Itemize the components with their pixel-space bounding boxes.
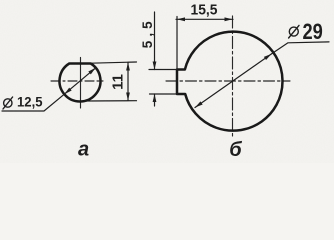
arrowhead lower-left (194, 101, 203, 109)
dimension line 5,5 lower segment (154, 94, 156, 106)
arrowhead up (126, 63, 130, 71)
extension line: tab bottom edge extended left (150, 93, 178, 95)
dimension line 5,5 upper segment (154, 12, 156, 70)
text diameter 29 (289, 25, 299, 38)
extension line top (flat continues right) (91, 62, 137, 63)
outline: circle with key tab on left (177, 32, 283, 131)
arrowhead right (225, 17, 233, 21)
diameter dimension line (diagonal) (195, 54, 272, 108)
arrowhead down (126, 93, 130, 101)
arrowhead up at tab bottom (153, 94, 157, 102)
extension line bottom (85, 100, 137, 102)
arrowhead down at tab top (153, 62, 157, 70)
outline: circle with flat top (59, 64, 100, 102)
arrowhead lower-left (63, 88, 72, 96)
extension line: tab face extended up (left ext of 15,5) (176, 17, 178, 70)
dimension line 15,5 (176, 18, 233, 20)
dimension line 11 (vertical) (127, 63, 129, 101)
vertical centerline of big circle (232, 16, 234, 137)
arrowhead upper-right (88, 66, 97, 74)
horizontal centerline of small circle (51, 80, 103, 82)
horizontal centerline of big circle (166, 80, 290, 82)
text diameter 12,5 (3, 97, 13, 109)
paper background (0, 0, 334, 163)
vertical centerline of small circle (80, 58, 82, 109)
arrowhead left (177, 17, 185, 21)
leader line to text 29 (272, 42, 330, 54)
extension line: tab top edge extended left (149, 69, 177, 71)
arrowhead upper-right (264, 52, 273, 60)
diameter dimension line (diagonal) (64, 68, 95, 94)
leader line to text (2, 94, 64, 111)
